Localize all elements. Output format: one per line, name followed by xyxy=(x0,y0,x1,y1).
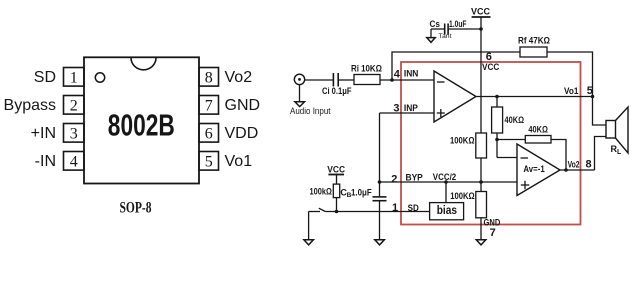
svg-text:6: 6 xyxy=(205,125,213,142)
svg-text:2: 2 xyxy=(391,174,397,186)
svg-text:3: 3 xyxy=(393,103,399,115)
svg-text:1: 1 xyxy=(70,69,78,86)
svg-text:SD: SD xyxy=(34,69,56,86)
svg-text:VCC: VCC xyxy=(471,7,490,18)
svg-text:INN: INN xyxy=(404,69,419,80)
svg-text:+IN: +IN xyxy=(31,125,56,142)
svg-text:100KΩ: 100KΩ xyxy=(450,191,475,201)
svg-text:100KΩ: 100KΩ xyxy=(450,136,475,146)
svg-text:7: 7 xyxy=(205,97,213,114)
svg-text:Ri 10KΩ: Ri 10KΩ xyxy=(351,63,382,74)
svg-text:Vo2: Vo2 xyxy=(225,69,253,86)
svg-text:bias: bias xyxy=(437,205,457,217)
svg-text:Vo1: Vo1 xyxy=(564,86,579,97)
svg-text:4: 4 xyxy=(394,69,401,81)
svg-text:1.0uF: 1.0uF xyxy=(449,19,467,30)
svg-text:Av=-1: Av=-1 xyxy=(523,164,544,174)
svg-text:GND: GND xyxy=(225,97,261,114)
svg-text:BYP: BYP xyxy=(406,173,424,184)
svg-text:5: 5 xyxy=(205,153,213,170)
svg-text:8: 8 xyxy=(205,69,213,86)
svg-text:1: 1 xyxy=(392,202,398,214)
svg-text:8002B: 8002B xyxy=(108,108,175,143)
svg-text:Cs: Cs xyxy=(430,19,441,30)
svg-text:VCC: VCC xyxy=(482,62,499,73)
svg-text:INP: INP xyxy=(404,103,419,114)
svg-text:Bypass: Bypass xyxy=(4,97,56,114)
svg-text:SOP-8: SOP-8 xyxy=(120,200,152,217)
svg-text:VCC: VCC xyxy=(327,164,345,175)
svg-text:Ci 0.1μF: Ci 0.1μF xyxy=(322,86,352,97)
svg-text:VCC/2: VCC/2 xyxy=(433,172,456,183)
svg-text:Tant: Tant xyxy=(439,34,452,40)
svg-text:Audio Input: Audio Input xyxy=(290,106,331,116)
svg-text:40KΩ: 40KΩ xyxy=(528,125,548,135)
svg-text:4: 4 xyxy=(70,153,78,170)
svg-text:1.0μF: 1.0μF xyxy=(351,187,372,197)
svg-text:40KΩ: 40KΩ xyxy=(505,115,525,125)
svg-text:7: 7 xyxy=(490,227,496,239)
svg-text:3: 3 xyxy=(70,125,78,142)
svg-text:-IN: -IN xyxy=(35,153,56,170)
svg-text:VDD: VDD xyxy=(225,125,259,142)
svg-text:Vo1: Vo1 xyxy=(225,153,253,170)
svg-text:5: 5 xyxy=(587,85,593,97)
svg-text:2: 2 xyxy=(70,97,78,114)
svg-text:8: 8 xyxy=(586,158,592,170)
svg-text:Rf 47KΩ: Rf 47KΩ xyxy=(518,36,550,47)
svg-text:100kΩ: 100kΩ xyxy=(310,187,332,197)
svg-text:Vo2: Vo2 xyxy=(568,160,580,171)
svg-text:SD: SD xyxy=(408,203,419,214)
